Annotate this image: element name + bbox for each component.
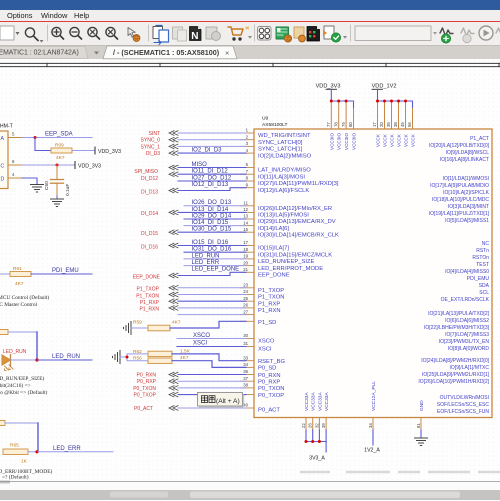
partial icon at right edge [496,28,500,33]
pin 38 top [398,101,400,129]
svg-text:5: 5 [12,132,15,137]
svg-text:I/SHM-T: I/SHM-T [0,124,14,130]
pin numbers VDD_1V2 [372,122,412,127]
svg-text:NC: NC [482,241,490,247]
svg-text:4K7: 4K7 [172,319,181,325]
net labels [192,148,240,347]
svg-text:LED_RUN: LED_RUN [192,253,220,259]
dropdown arrow between tabs [94,52,99,55]
resistor R62 [148,351,172,356]
pin numbers VDD_3V3 [326,122,353,127]
svg-text:PDI_EMU: PDI_EMU [52,268,79,274]
svg-text:DI_D14: DI_D14 [141,211,158,217]
wire IO13_DI_D14 [178,211,246,213]
port SYNC_0 [169,137,178,142]
pin 11 [240,205,254,207]
svg-text:23: 23 [243,283,248,288]
svg-text:IO[27]/LDA[11]/PWM1L/RXD[3]: IO[27]/LDA[11]/PWM1L/RXD[3] [258,181,339,187]
wire vertical to LED_RUN row [36,332,38,360]
resistor R65 [3,449,28,455]
pin 2 [240,139,254,141]
port P0_TXON [169,386,178,391]
svg-text:P1_TXON: P1_TXON [136,293,159,299]
svg-text:4: 4 [12,172,15,177]
svg-text:IO[26]/LDA[10]/PWM1H/RXD[2]: IO[26]/LDA[10]/PWM1H/RXD[2] [418,379,489,385]
svg-text:VCCK: VCCK [383,133,388,147]
pin 35 [240,374,254,376]
pin 8 C [8,164,22,166]
pin 17 top [377,101,379,129]
wire vertical to LED_ERR row [37,423,39,452]
svg-text:XSCI: XSCI [258,347,272,353]
svg-text:IO[3]/LDA[3]/MINT: IO[3]/LDA[3]/MINT [448,204,489,210]
port P1_TXON [169,292,178,297]
svg-text:SYNC_0: SYNC_0 [141,138,161,144]
zoom cross [88,27,97,36]
svg-text:SCL: SCL [479,290,489,296]
svg-text:8: 8 [12,159,15,164]
svg-text:P0_RXN: P0_RXN [258,373,281,379]
svg-text:RSTn: RSTn [476,248,489,254]
svg-text:WD_TRIG/INT/SINT: WD_TRIG/INT/SINT [258,133,311,139]
svg-text:P0_RXP: P0_RXP [258,380,280,386]
wire LED to junction [11,359,38,361]
wire ground to resistors [120,354,148,357]
port SINT [169,131,178,136]
power VDD_1V2 [372,84,397,90]
wire ground to R59 [131,327,148,329]
wire LED_ERR net [38,451,113,453]
svg-text:VCC33A: VCC33A [311,392,317,411]
svg-text:LED_RUN: LED_RUN [52,354,80,360]
pin 9 top [345,101,347,129]
svg-text:20: 20 [379,122,384,127]
sheet border ruler top [0,63,500,66]
ground under C50 [51,199,64,207]
wire IO29_DO_D14 [184,218,246,220]
junction dots VDD_1V2 [376,100,407,103]
wire to LED_ERR column [5,422,38,424]
pin 4 [240,152,254,154]
svg-text:IO[17]/LA[9]/PULAB/MDIO: IO[17]/LA[9]/PULAB/MDIO [430,183,489,189]
svg-text:IO[29]/LDA[13]/EMCA/RX_DV: IO[29]/LDA[13]/EMCA/RX_DV [258,219,336,225]
wire IO14_DI_D15 [184,225,246,227]
svg-text:77: 77 [326,122,331,127]
svg-text:19: 19 [243,254,248,259]
svg-text:VDD_1V2: VDD_1V2 [372,84,397,90]
svg-text:SYNC_1: SYNC_1 [141,144,161,150]
svg-text:11: 11 [244,201,249,206]
shopping cart orange [228,27,243,35]
pin 27 [240,314,254,316]
svg-text:up to @Kbit => (Default): up to @Kbit => (Default) [0,389,48,396]
svg-text:A: A [1,136,5,142]
svg-text:39: 39 [321,423,326,428]
svg-text:IO15_DI_D16: IO15_DI_D16 [192,240,229,246]
wire P0_TXOP [178,394,246,396]
svg-text:IO[21]/LA[13]/PULA/TXD[2]: IO[21]/LA[13]/PULA/TXD[2] [428,311,489,317]
svg-text:DI_D16: DI_D16 [141,244,158,250]
svg-text:RSTOn: RSTOn [472,255,489,261]
pin names VCCK columns 1V2 [376,133,416,147]
svg-text:P0_RXN: P0_RXN [137,373,157,379]
ground rotated at R59 [124,322,132,335]
svg-text:IO[8]/LA[0]/WORD: IO[8]/LA[0]/WORD [448,346,490,352]
svg-text:R62: R62 [133,349,142,355]
wire LED_EEP_DONE jog [178,272,246,275]
svg-text:MCU Control (Default): MCU Control (Default) [0,294,49,301]
wire LED_RUN pin19 [184,258,246,260]
svg-text:VCC33A: VCC33A [317,392,323,411]
wire IO12_DI_D13 jog [178,188,246,191]
svg-text:VCCK: VCCK [376,133,381,147]
svg-text:MISO: MISO [192,162,208,168]
pin 40 [240,407,254,409]
junction dot at ground [126,356,129,359]
svg-text:VCC3IO: VCC3IO [329,132,334,150]
svg-text:P0_SD: P0_SD [258,366,276,372]
wire R09 to power [72,150,95,152]
wire R59 to pin 28 [170,321,246,328]
svg-text:IO[23]/PWM3L/TX_EN: IO[23]/PWM3L/TX_EN [439,339,490,345]
note LED_RUN strap [0,375,48,396]
svg-text:14: 14 [243,220,248,225]
svg-text:EEP_DONE: EEP_DONE [258,273,290,279]
port SYNC_1 [169,144,178,149]
wires light [177,133,246,408]
svg-text:34: 34 [243,362,248,367]
svg-text:P1_RXN: P1_RXN [258,308,281,314]
svg-text:PDI_EMU: PDI_EMU [467,276,490,282]
port P1_TXOP [169,286,178,291]
svg-text:R09: R09 [55,142,64,148]
pin 8 [240,180,254,182]
svg-text:22: 22 [301,423,306,428]
power VDD_3V3 [316,84,341,90]
svg-text:/ - (SCHEMATIC1 : 05:AX58100): / - (SCHEMATIC1 : 05:AX58100) [113,48,220,57]
pin 13 [240,218,254,220]
svg-text:38: 38 [243,383,248,388]
diode LED D? [2,355,13,371]
waveform add icon [440,28,453,36]
wire IO15_DI_D16 [178,245,246,247]
svg-text:LED_ERR: LED_ERR [192,260,220,266]
svg-text:IO30_DO_D15: IO30_DO_D15 [192,227,232,233]
port DI_D3 [169,151,178,156]
svg-text:SDA: SDA [479,283,490,289]
port P0_ACT [169,406,178,411]
capacitor C50 [56,165,58,179]
svg-text:15: 15 [243,227,248,232]
wire MISO [178,167,246,169]
svg-text:25: 25 [243,296,248,301]
svg-text:OE_EXT/LRDn/SCLK: OE_EXT/LRDn/SCLK [441,297,490,303]
wire IO11_DI_D12 [178,173,246,175]
svg-text:XSCI: XSCI [193,341,207,347]
svg-text:R61: R61 [13,266,22,272]
pin 1 [240,132,254,134]
svg-text:P0_TXON: P0_TXON [133,386,156,392]
pin 17 [240,245,254,247]
inactive tab [0,47,88,59]
svg-text:R65: R65 [10,442,19,448]
svg-text:P0_ACT: P0_ACT [134,406,153,412]
svg-text:P1_RXN: P1_RXN [140,307,160,313]
svg-text:80: 80 [348,122,353,127]
svg-text:EC Master Control: EC Master Control [0,302,38,308]
wire pin D to ground [22,178,37,184]
wires dark [177,153,246,395]
pin 32 bottom [318,418,320,431]
svg-text:VDD_3V3: VDD_3V3 [316,84,341,90]
svg-text:7: 7 [246,169,249,174]
svg-text:VDD_3V3: VDD_3V3 [98,149,121,155]
pin numbers bottom 3V3 [301,423,326,428]
svg-text:P1_SD: P1_SD [258,320,276,326]
svg-text:×: × [225,49,229,58]
svg-text:4K7: 4K7 [15,281,24,287]
svg-text:IO29_DO_D14: IO29_DO_D14 [192,213,232,219]
svg-text:R59: R59 [133,319,142,325]
svg-text:IO[6]/LDA[6]/MISS2: IO[6]/LDA[6]/MISS2 [445,318,489,324]
grayed icon [173,27,183,39]
wire VDD_3V3 rail [331,101,353,109]
svg-text:34: 34 [368,423,373,428]
svg-text:VCCK: VCCK [397,133,402,147]
toolbar icons svg [0,0,500,46]
port P1_RXP [169,299,178,304]
svg-text:36: 36 [243,369,248,374]
pin 26 [240,307,254,309]
tab bar svg [0,0,500,62]
pin 38 [240,394,254,396]
svg-text:IO27_DO_D12: IO27_DO_D12 [192,175,232,181]
resistor fragment top of LED column [0,330,8,335]
pin 35 top [391,101,393,129]
separator [47,25,49,41]
svg-text:26: 26 [308,423,313,428]
pin 34 [240,366,254,368]
svg-text:IO[9]/LDA[8]/WSCL: IO[9]/LDA[8]/WSCL [446,150,490,156]
svg-text:0.1uF: 0.1uF [65,184,71,196]
waveform gray icon [461,28,474,36]
svg-text:IO2_DI_D3: IO2_DI_D3 [192,148,223,154]
pointer with orange ball [128,28,135,38]
svg-text:4K7: 4K7 [56,155,65,161]
pin 37 [240,387,254,389]
svg-text:DI_D12: DI_D12 [141,176,158,182]
svg-text:1Kbit(24C16) =>: 1Kbit(24C16) => [0,382,31,389]
wire R56 to pin 34 [172,361,246,368]
svg-text:IO[15]/LA[7]: IO[15]/LA[7] [258,246,289,252]
svg-text:IO[26]/LDA[12]/FMIo/RX_ER: IO[26]/LDA[12]/FMIo/RX_ER [258,206,332,212]
svg-text:P0_TXON: P0_TXON [258,386,284,392]
svg-text:4: 4 [246,148,249,153]
tan icon with ball [294,27,304,38]
svg-text:C: C [1,163,5,169]
svg-text:U9: U9 [262,116,269,122]
note LED_ERR strap [0,468,52,481]
pin 14 [240,225,254,227]
wire LED_RUN net [37,359,92,361]
zoom in [52,27,61,36]
svg-text:IO[30]/LDA[14]/EMCB/RX_CLK: IO[30]/LDA[14]/EMCB/RX_CLK [258,232,339,238]
svg-text:AX58100LT: AX58100LT [262,122,287,128]
zoom select [106,27,115,36]
svg-text:9: 9 [246,182,249,187]
svg-text:38: 38 [393,122,398,127]
svg-text:DI_D3: DI_D3 [146,151,160,157]
wire into R61 [0,273,10,275]
svg-text:21: 21 [243,267,248,272]
pin 19 [240,258,254,260]
wire IO26_DO_D13 [184,205,246,207]
ground [415,438,428,446]
svg-text:45: 45 [400,122,405,127]
port DI_D12 [169,172,178,177]
wire pin C [22,164,74,166]
pin 6 [240,167,254,169]
svg-text:VCCK: VCCK [404,133,409,147]
pin 8 top [353,109,355,130]
svg-text:12: 12 [243,207,248,212]
junction dots 3V3_A [305,440,321,443]
wire P0_ACT [178,407,246,409]
svg-text:LED_EEP_DONE: LED_EEP_DONE [192,267,240,273]
svg-text:IO14_DI_D15: IO14_DI_D15 [192,220,229,226]
svg-text:32: 32 [314,423,319,428]
pin 4 D [8,177,22,179]
svg-text:IO[2]/LDA[2]/MMISO: IO[2]/LDA[2]/MMISO [258,153,312,159]
svg-text:SINT: SINT [149,131,160,137]
pin 56 top [412,109,414,130]
pin 33 [240,360,254,362]
separator [148,25,150,41]
wire EEP_SDA [22,137,92,139]
svg-text:VCC33A: VCC33A [304,392,310,411]
pin 18 [240,251,254,253]
svg-text:IO[5]/LDA[5]/MISS1: IO[5]/LDA[5]/MISS1 [445,218,489,224]
svg-text:VCC3IO: VCC3IO [352,132,357,150]
pin names VCC33A columns [304,392,330,411]
port P1_RXN [169,306,178,311]
svg-text:VCCK: VCCK [411,133,416,147]
wire 1V2_A net [372,430,374,445]
svg-text:IO[9]/LA[1]/MTXC: IO[9]/LA[1]/MTXC [450,365,490,371]
svg-text:P1_RXP: P1_RXP [140,300,160,306]
svg-text:P0_RXP: P0_RXP [137,379,157,385]
pin 7 [240,173,254,175]
svg-text:IO[4]/LDA[4]/MISS0: IO[4]/LDA[4]/MISS0 [445,269,489,275]
junction dots VDD_3V3 [330,100,348,103]
pin 30 [240,338,254,340]
four circle grid icon [258,27,272,41]
sheet border faint bottom marks [300,471,500,473]
svg-text:EEP_SDA: EEP_SDA [45,132,73,138]
svg-text:30: 30 [243,333,248,338]
wire IO27_DO_D12 [178,180,246,182]
svg-text:33: 33 [243,355,248,360]
svg-text:IO[12]/LA[6]/FSCLK: IO[12]/LA[6]/FSCLK [258,188,309,194]
svg-text:LED_ERR/PROT_MODE: LED_ERR/PROT_MODE [258,266,323,272]
wire VDD_1V2 rail [378,101,413,109]
bottom bar svg [0,480,500,500]
svg-text:1: 1 [246,128,249,133]
port DI_D16 [169,243,178,248]
port P0_RXN [169,372,178,377]
pin 26 bottom [312,418,314,431]
svg-text:VCCK: VCCK [390,133,395,147]
svg-text:RSET_BG: RSET_BG [258,359,286,365]
svg-text:P1_ACT: P1_ACT [470,136,489,142]
wire to R09 [35,138,51,151]
svg-text:26: 26 [243,303,248,308]
resistor R09 [51,148,72,153]
N document icon [190,27,202,41]
svg-text:(LED_RUN/EEP_SIZE): (LED_RUN/EEP_SIZE) [0,375,45,382]
port chevrons [169,131,178,411]
svg-text:XSCO: XSCO [258,339,275,345]
svg-text:8: 8 [246,176,249,181]
pin 23 [240,287,254,289]
svg-text:IO26_DO_D13: IO26_DO_D13 [192,200,232,206]
resistor R56 [148,358,172,363]
tooltip overlay [198,393,245,408]
wire VDD_1V2 stem [377,89,379,101]
wire P0_RXP [178,380,246,382]
pin 9 [240,187,254,189]
svg-text:IO[20]/LA[12]/P0LB/TXD[0]: IO[20]/LA[12]/P0LB/TXD[0] [429,143,490,149]
svg-text:6: 6 [246,162,249,167]
pin 20 [240,265,254,267]
power port VDD_3V3 a [94,147,96,154]
svg-text:P0_TXOP: P0_TXOP [133,393,156,399]
svg-text:31: 31 [243,341,248,346]
wire XSCO [177,338,246,340]
wire R62 to pin 33 [172,354,246,361]
svg-text:SPI_MISO: SPI_MISO [134,169,158,175]
port P0_RXP [169,379,178,384]
svg-text:VCC33A: VCC33A [324,392,330,411]
wire R65 to junction [28,451,38,453]
pin 31 [240,346,254,348]
pin 28 [240,320,254,322]
wire P1_RXP [178,300,246,302]
svg-text:37: 37 [243,376,248,381]
wire IO30_DO_D15 [178,231,246,233]
ground under pin D [31,185,44,193]
doc with green check [324,26,334,39]
resistor fragment top of LED_ERR column [0,421,5,426]
junction dot C [56,164,59,167]
svg-text:LED_RUN: LED_RUN [3,349,27,355]
svg-text:56: 56 [407,122,412,127]
svg-text:IO[14]/LA[6]: IO[14]/LA[6] [258,226,289,232]
svg-text:IO31_DO_D16: IO31_DO_D16 [192,247,232,253]
svg-text:IO[25]/LDA[9]/PWM2L/RXD[1]: IO[25]/LDA[9]/PWM2L/RXD[1] [422,372,490,378]
pin 12 top [330,101,332,129]
pin 3 [240,145,254,147]
svg-text:24: 24 [243,289,248,294]
pin 45 top [405,101,407,129]
page flip icon [153,27,163,39]
svg-text:1V2_A: 1V2_A [364,448,380,454]
svg-text:SYNC_LATCH[0]: SYNC_LATCH[0] [258,140,303,146]
svg-text:C50: C50 [44,181,50,190]
svg-text:IO12_DI_D13: IO12_DI_D13 [192,182,229,188]
wire SYNC_1 [178,145,246,147]
pin 21 [240,271,254,273]
